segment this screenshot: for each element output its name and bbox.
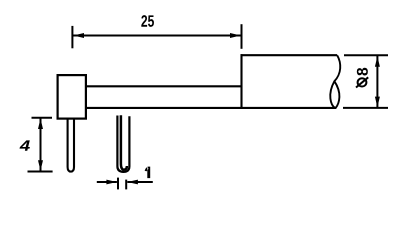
dimension 25 right arrowhead xyxy=(230,33,241,38)
needle stylus outer outline xyxy=(117,116,129,172)
dimension 25 label xyxy=(141,15,154,27)
dimension 1 right leader line xyxy=(127,181,153,183)
diameter 8 label digit 8 rotated xyxy=(357,68,368,76)
shaft S-break curve left stroke xyxy=(330,55,340,108)
shaft left face xyxy=(240,54,242,109)
dimension 4 top extension line xyxy=(32,117,53,119)
dimension 1 label xyxy=(145,167,151,179)
dimension 1 right arrowhead xyxy=(127,180,137,185)
dimension 1 right extension line xyxy=(125,180,127,190)
rod top edge xyxy=(86,85,242,87)
rod and shaft bottom edge xyxy=(86,107,336,109)
dimension 1 left leader line xyxy=(97,181,117,183)
diameter 8 top arrowhead xyxy=(375,56,380,67)
diameter 8 bottom arrowhead xyxy=(375,97,380,108)
diameter 8 label diameter symbol circle xyxy=(358,78,367,86)
diameter 8 dimension line xyxy=(376,56,378,107)
dimension 4 bottom extension line xyxy=(28,171,53,173)
shaft S-break lens right stroke xyxy=(334,81,339,108)
holder block xyxy=(58,75,86,119)
dimension 1 left arrowhead xyxy=(106,180,117,185)
dimension 4 line xyxy=(40,118,42,171)
dimension 25 right extension line xyxy=(241,24,243,49)
dimension 4 label xyxy=(20,140,30,150)
dimension 25 left extension line xyxy=(71,26,73,48)
needle stylus inner left line xyxy=(121,115,127,170)
dimension 25 line xyxy=(73,35,241,37)
shaft top edge xyxy=(241,54,338,56)
dimension 1 left extension line xyxy=(117,178,119,190)
dimension 25 left arrowhead xyxy=(73,33,84,38)
diameter 8 label diameter symbol slash xyxy=(356,77,368,87)
dimension 4 bottom arrowhead xyxy=(38,160,43,171)
dimension 4 top arrowhead xyxy=(38,118,43,129)
diameter 8 top extension line xyxy=(344,54,388,56)
contact pin under block xyxy=(68,119,74,172)
diameter 8 bottom extension line xyxy=(343,107,388,109)
